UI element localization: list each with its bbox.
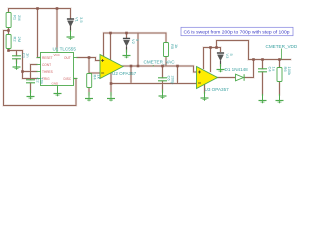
svg-text:VCC: VCC	[54, 53, 61, 57]
svg-text:U3 OPA357: U3 OPA357	[205, 87, 230, 92]
svg-text:1k: 1k	[97, 75, 102, 79]
svg-text:3.5: 3.5	[79, 17, 84, 23]
svg-text:200p: 200p	[171, 76, 176, 86]
svg-text:100k: 100k	[287, 67, 292, 76]
svg-text:D1 1N4148: D1 1N4148	[225, 67, 249, 72]
svg-text:U2 OPA357: U2 OPA357	[112, 71, 137, 76]
svg-text:1u: 1u	[272, 67, 277, 71]
svg-text:GND: GND	[52, 82, 60, 86]
svg-text:U1 TLC555: U1 TLC555	[53, 47, 77, 52]
svg-text:1k: 1k	[174, 44, 179, 48]
svg-text:THRES: THRES	[42, 70, 53, 74]
svg-text:CONT: CONT	[42, 63, 51, 67]
svg-text:1n: 1n	[26, 53, 31, 57]
svg-text:2M: 2M	[17, 15, 22, 21]
svg-text:OUT: OUT	[64, 56, 71, 60]
svg-text:2M: 2M	[17, 37, 22, 43]
svg-text:TRIG: TRIG	[42, 77, 50, 81]
svg-text:CMETER_VAC: CMETER_VAC	[144, 60, 176, 65]
svg-text:CMETER_VDD: CMETER_VDD	[266, 44, 298, 49]
svg-text:C6 is swept from 200p to 700p: C6 is swept from 200p to 700p with step …	[184, 29, 291, 34]
svg-text:RESET: RESET	[42, 56, 53, 60]
svg-text:DISC: DISC	[64, 77, 72, 81]
